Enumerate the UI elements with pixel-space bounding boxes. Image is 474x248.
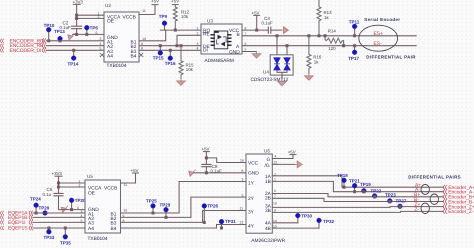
svg-text:+3V3: +3V3 — [52, 171, 63, 176]
svg-text:2: 2 — [197, 32, 199, 36]
junction R12/RO — [174, 29, 176, 31]
svg-text:TP14: TP14 — [68, 61, 79, 66]
svg-text:3B: 3B — [265, 208, 271, 214]
wire A3 — [33, 221, 85, 223]
capacitor C8 — [202, 164, 222, 174]
connector ellipse — [359, 25, 398, 51]
wire A1 — [33, 212, 85, 214]
IC U5 TXB0104 — [77, 174, 127, 242]
svg-text:TP31: TP31 — [225, 219, 236, 224]
test point TP10 — [44, 23, 55, 42]
svg-text:2: 2 — [98, 15, 100, 19]
TVS U4 CDSOT23-SM712 — [251, 35, 294, 83]
test point TP31 — [219, 219, 236, 229]
ground U4 — [278, 79, 287, 86]
power +3V3 rail (bottom) — [52, 171, 63, 193]
wire OE branch — [59, 186, 86, 188]
svg-text:4: 4 — [197, 47, 199, 51]
svg-text:+5V: +5V — [288, 149, 296, 154]
node Encoder_B- — [443, 199, 474, 205]
svg-text:120: 120 — [328, 46, 336, 51]
svg-text:1Y: 1Y — [248, 180, 255, 186]
wire 3B pair — [272, 211, 443, 212]
svg-text:U2: U2 — [105, 3, 111, 8]
wire 1A pair — [272, 176, 443, 187]
svg-text:OE: OE — [88, 191, 95, 197]
svg-text:6: 6 — [274, 189, 276, 193]
test point TP28 — [39, 206, 50, 216]
svg-text:DI: DI — [203, 48, 208, 54]
svg-text:/G: /G — [265, 163, 270, 169]
wire B2 to 2Y — [121, 197, 247, 217]
connector ellipse pair Z — [421, 203, 429, 213]
svg-text:TP18: TP18 — [337, 173, 348, 178]
no-connect B4 — [139, 53, 143, 57]
svg-text:TP26: TP26 — [207, 203, 218, 208]
ground (U6 gnd) — [189, 170, 196, 177]
test point TP24 — [30, 197, 41, 214]
svg-text:6: 6 — [77, 206, 79, 210]
test point TP18 — [337, 173, 348, 188]
wire B net (ES+) — [242, 35, 416, 37]
test point TP26 — [202, 203, 219, 223]
node EQEP1B — [1, 215, 33, 221]
svg-text:4B: 4B — [265, 226, 271, 232]
wire RO net — [160, 29, 201, 31]
IC U6 AM26C32IPWR — [240, 149, 286, 244]
capacitor C2 — [60, 20, 82, 34]
svg-text:ES-: ES- — [374, 41, 382, 47]
svg-text:3: 3 — [100, 37, 102, 41]
svg-text:Serial Encoder: Serial Encoder — [364, 17, 400, 22]
ground — [68, 34, 75, 41]
svg-text:+5V: +5V — [171, 0, 179, 4]
svg-text:10: 10 — [124, 208, 128, 212]
svg-text:3: 3 — [197, 42, 199, 46]
svg-text:ADM485ARM: ADM485ARM — [205, 58, 234, 64]
node Encoder_A+ — [443, 185, 474, 191]
test point TP35 — [60, 227, 71, 246]
node Encoder_B+ — [443, 195, 474, 201]
svg-text:TP27: TP27 — [396, 198, 407, 203]
test point TP20 — [69, 198, 86, 211]
svg-text:TP33: TP33 — [44, 235, 55, 240]
svg-text:10: 10 — [273, 202, 277, 206]
wire VCCB to +5V — [139, 0, 159, 14]
svg-text:TP25: TP25 — [146, 198, 157, 203]
svg-text:0.1u: 0.1u — [43, 192, 52, 197]
test point TP21 — [349, 178, 360, 192]
node ENCODER_RE — [1, 43, 46, 49]
svg-text:TP28: TP28 — [39, 206, 50, 211]
svg-text:GND: GND — [248, 170, 259, 176]
wire B1 to RO — [139, 30, 166, 41]
inner chip graphic — [214, 31, 228, 49]
svg-text:AM26C32IPWR: AM26C32IPWR — [251, 238, 285, 244]
svg-text:TP32: TP32 — [323, 219, 334, 224]
svg-text:TP29: TP29 — [160, 202, 171, 207]
wire A net (ES-) — [242, 45, 416, 47]
svg-text:2B: 2B — [265, 196, 271, 202]
svg-text:U6: U6 — [264, 149, 270, 154]
svg-text:4: 4 — [100, 42, 102, 46]
ground U3 — [252, 52, 261, 59]
wire 3A pair — [272, 206, 443, 209]
svg-text:1k: 1k — [314, 60, 319, 65]
svg-text:+5V: +5V — [202, 147, 210, 152]
svg-text:B: B — [237, 32, 240, 38]
svg-text:TP13: TP13 — [54, 29, 65, 34]
wire A3 — [46, 49, 104, 51]
svg-text:4Y: 4Y — [248, 223, 255, 229]
svg-text:TXB0104: TXB0104 — [107, 63, 127, 69]
svg-text:U5: U5 — [87, 174, 93, 179]
test point TP14 — [68, 49, 79, 66]
IC U2 TXB0104 — [96, 3, 147, 69]
wire B3 to 3Y — [121, 211, 247, 223]
svg-text:Z-: Z- — [415, 207, 420, 213]
no-connect A4 — [100, 53, 104, 57]
wire VCCB to +5V — [121, 168, 139, 183]
svg-text:TP11: TP11 — [349, 19, 360, 24]
IC U3 ADM485ARM — [197, 19, 247, 64]
svg-text:DIFFERENTIAL PAIRS: DIFFERENTIAL PAIRS — [408, 175, 461, 180]
test point TP23 — [385, 192, 396, 203]
test point TP16 — [165, 49, 176, 66]
resistor R12 — [171, 0, 189, 30]
svg-text:VCCB: VCCB — [104, 186, 117, 192]
svg-text:TP21: TP21 — [349, 178, 360, 183]
svg-text:TP16: TP16 — [165, 61, 176, 66]
ground (bottom left) — [61, 206, 68, 213]
wire 4A stub — [272, 222, 298, 224]
svg-text:4: 4 — [81, 214, 83, 218]
svg-text:B4: B4 — [111, 226, 117, 232]
svg-text:B4: B4 — [131, 54, 137, 60]
node Encoder_A- — [443, 190, 474, 196]
ground R15 — [177, 79, 186, 86]
ground R16 — [305, 74, 314, 81]
svg-text:4A: 4A — [265, 221, 272, 227]
wire 4B stub — [272, 227, 319, 229]
svg-text:A4: A4 — [107, 54, 113, 60]
svg-text:3: 3 — [81, 209, 83, 213]
test point TP9 — [159, 14, 168, 30]
svg-text:TP22: TP22 — [371, 188, 382, 193]
wire VCC +5V — [242, 11, 268, 32]
svg-text:ES+: ES+ — [374, 31, 383, 37]
svg-text:TP20: TP20 — [75, 198, 86, 203]
diode pair left — [274, 58, 280, 71]
test point TP17 — [348, 45, 359, 61]
wire gnd to U6 — [194, 172, 246, 174]
svg-text:TP23: TP23 — [385, 192, 396, 197]
svg-text:1: 1 — [197, 26, 199, 30]
svg-text:TP6: TP6 — [90, 25, 99, 30]
connector ellipse pair A — [421, 184, 429, 194]
svg-text:1B: 1B — [265, 179, 271, 185]
wire B2 / DE — [139, 45, 201, 47]
svg-text:+3V3: +3V3 — [73, 0, 84, 4]
svg-text:TP24: TP24 — [30, 197, 41, 202]
test point TP6 — [84, 25, 98, 34]
svg-text:5: 5 — [81, 219, 83, 223]
node EQEP1A — [1, 211, 33, 217]
svg-text:1k: 1k — [324, 15, 329, 20]
wire VCCA branch — [77, 14, 104, 16]
resistor R16 — [307, 35, 322, 74]
svg-text:+5V: +5V — [131, 168, 139, 173]
capacitor C3 — [262, 16, 282, 33]
wire A2 — [33, 216, 85, 218]
test point TP29 — [160, 202, 171, 218]
wire /G to gnd — [272, 163, 295, 165]
svg-text:3: 3 — [242, 178, 244, 182]
node EQEP1I — [1, 220, 33, 226]
power +3V3 rail — [73, 0, 84, 26]
wire B1 to 1Y — [121, 182, 247, 214]
svg-text:A4: A4 — [88, 226, 94, 232]
wire gnd net — [73, 33, 105, 35]
svg-text:TP19: TP19 — [360, 182, 371, 187]
svg-text:10: 10 — [142, 37, 146, 41]
test point TP19 — [360, 182, 371, 193]
node Encoder_Z+ — [443, 204, 474, 210]
svg-text:VCC: VCC — [248, 161, 259, 167]
svg-text:Encoder_Z-: Encoder_Z- — [448, 209, 474, 215]
svg-text:A3: A3 — [88, 221, 94, 227]
wire VCCA branch — [59, 182, 86, 184]
svg-text:ENCODER_DI: ENCODER_DI — [10, 48, 42, 54]
svg-text:EQEP1S: EQEP1S — [8, 226, 28, 232]
svg-text:U4: U4 — [263, 70, 269, 75]
wire RE link — [177, 35, 201, 45]
power +5V / C8 — [202, 147, 247, 165]
test point TP22 — [371, 188, 382, 198]
svg-text:R14: R14 — [328, 29, 337, 34]
node EQEP1S — [1, 226, 33, 232]
svg-text:2: 2 — [79, 184, 81, 188]
svg-text:TXB0104: TXB0104 — [88, 236, 108, 242]
svg-text:6: 6 — [96, 31, 98, 35]
wire 1B pair — [272, 181, 443, 191]
test point TP25 — [146, 198, 157, 214]
svg-text:8: 8 — [242, 169, 244, 173]
wire 2A pair — [272, 194, 443, 197]
resistor R13 — [317, 0, 332, 37]
test point TP27 — [396, 198, 407, 208]
svg-text:10k: 10k — [181, 14, 189, 19]
svg-text:+5V: +5V — [151, 0, 159, 4]
svg-text:DIFFERENTIAL PAIR: DIFFERENTIAL PAIR — [366, 54, 416, 59]
ground /G — [295, 161, 302, 168]
svg-text:11: 11 — [240, 207, 244, 211]
wire A2 — [46, 45, 104, 47]
svg-text:TP30: TP30 — [301, 214, 312, 219]
wire G to +5V — [272, 149, 296, 158]
diode pair right — [284, 58, 290, 71]
svg-text:0.1uF: 0.1uF — [262, 21, 274, 26]
svg-text:TP35: TP35 — [60, 241, 71, 246]
svg-text:3Y: 3Y — [248, 209, 255, 215]
test point TP32 — [317, 218, 335, 228]
connector ellipse pair B — [430, 194, 438, 204]
wire GND pin5 — [242, 51, 257, 53]
svg-text:16: 16 — [240, 159, 244, 163]
capacitor C6 — [43, 187, 64, 209]
test point TP33 — [44, 227, 55, 240]
resistor R14 — [324, 29, 345, 51]
node ENCODER_DI — [1, 48, 46, 54]
node ENCODER_RO — [1, 38, 46, 44]
svg-text:OE: OE — [107, 19, 114, 25]
test point TP11 — [349, 19, 360, 36]
svg-text:VCCB: VCCB — [123, 14, 136, 20]
wire 2B pair — [272, 198, 443, 201]
svg-text:5: 5 — [242, 193, 244, 197]
wire B3 / DI — [139, 49, 201, 51]
svg-text:11: 11 — [142, 9, 146, 13]
svg-text:+5V: +5V — [252, 11, 260, 16]
wire A4 — [33, 227, 85, 229]
wire B4 to 4Y — [121, 225, 247, 229]
svg-text:G: G — [267, 157, 271, 163]
svg-text:5: 5 — [100, 47, 102, 51]
svg-text:GND: GND — [229, 49, 240, 55]
svg-text:TP10: TP10 — [44, 23, 55, 28]
svg-text:B3: B3 — [111, 221, 117, 227]
svg-text:13: 13 — [240, 221, 244, 225]
svg-text:7: 7 — [274, 194, 276, 198]
ground C3 — [281, 27, 288, 34]
resistor R15 — [179, 45, 194, 79]
svg-text:2Y: 2Y — [248, 196, 255, 202]
svg-text:11: 11 — [124, 183, 128, 187]
wire A1 — [46, 40, 104, 42]
svg-text:TP17: TP17 — [348, 56, 359, 61]
wire gnd net — [59, 209, 86, 211]
test point TP30 — [295, 213, 312, 223]
svg-text:10k: 10k — [186, 67, 194, 72]
node Encoder_Z- — [443, 209, 474, 215]
test point TP15 — [153, 45, 164, 61]
wire OE branch — [77, 17, 104, 19]
svg-text:TP15: TP15 — [153, 55, 164, 60]
svg-text:U3: U3 — [207, 19, 213, 24]
test point TP13 — [54, 29, 65, 42]
svg-text:TP9: TP9 — [159, 14, 168, 19]
